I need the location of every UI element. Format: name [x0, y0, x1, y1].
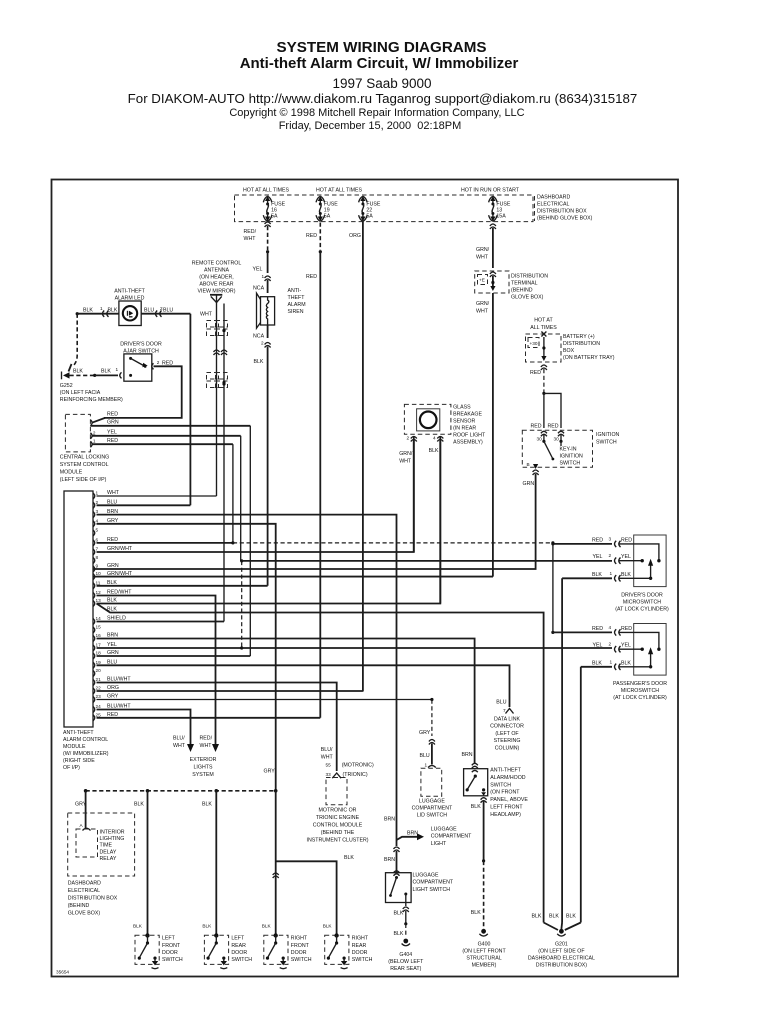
svg-text:BLK: BLK	[202, 802, 212, 808]
svg-text:GRN/: GRN/	[476, 301, 490, 307]
svg-text:(W/ IMMOBILIZER): (W/ IMMOBILIZER)	[63, 751, 109, 757]
svg-text:COMPARTMENT: COMPARTMENT	[431, 834, 472, 840]
svg-text:GLASS: GLASS	[453, 405, 471, 411]
svg-text:LEFT FRONT: LEFT FRONT	[490, 805, 523, 811]
svg-text:35654: 35654	[56, 970, 69, 975]
svg-text:THEFT: THEFT	[288, 295, 306, 301]
svg-text:BLK: BLK	[532, 914, 542, 920]
svg-text:VIEW MIRROR): VIEW MIRROR)	[198, 289, 236, 295]
svg-text:12: 12	[96, 590, 102, 595]
svg-text:RED: RED	[621, 537, 632, 543]
svg-text:1: 1	[93, 439, 96, 444]
svg-text:EXTERIOR: EXTERIOR	[190, 757, 217, 763]
svg-text:YEL: YEL	[593, 554, 603, 560]
svg-text:BLU/: BLU/	[321, 747, 333, 753]
svg-text:(ON HEADER,: (ON HEADER,	[199, 275, 233, 281]
svg-text:(LEFT SIDE OF I/P): (LEFT SIDE OF I/P)	[60, 477, 107, 483]
svg-text:LIGHT: LIGHT	[431, 841, 447, 847]
svg-text:GRN/: GRN/	[399, 451, 413, 457]
svg-text:BLK: BLK	[134, 802, 144, 808]
svg-text:RIGHT: RIGHT	[291, 936, 308, 942]
svg-text:MICROSWITCH: MICROSWITCH	[623, 600, 661, 606]
svg-text:1: 1	[610, 659, 613, 664]
svg-text:MICROSWITCH: MICROSWITCH	[621, 688, 659, 694]
svg-text:4: 4	[96, 518, 99, 523]
svg-text:23: 23	[96, 694, 102, 699]
svg-text:INSTRUMENT CLUSTER): INSTRUMENT CLUSTER)	[306, 838, 368, 844]
svg-text:BLK: BLK	[566, 914, 576, 920]
svg-text:WHT: WHT	[107, 490, 120, 496]
svg-text:COLUMN): COLUMN)	[495, 745, 520, 751]
svg-text:1: 1	[116, 367, 119, 372]
svg-text:22: 22	[96, 686, 102, 691]
svg-text:DISTRIBUTION BOX: DISTRIBUTION BOX	[68, 896, 118, 902]
svg-text:15A: 15A	[496, 214, 506, 220]
svg-text:PANEL, ABOVE: PANEL, ABOVE	[490, 797, 528, 803]
svg-text:BLK: BLK	[101, 369, 111, 375]
svg-text:BREAKAGE: BREAKAGE	[453, 412, 482, 418]
svg-text:ANTENNA: ANTENNA	[204, 268, 230, 274]
svg-text:LUGGAGE: LUGGAGE	[431, 827, 457, 833]
svg-text:BLU/: BLU/	[173, 736, 185, 742]
svg-text:BLK: BLK	[394, 911, 404, 917]
svg-text:15: 15	[96, 625, 102, 630]
svg-text:HOT AT: HOT AT	[534, 318, 553, 324]
svg-text:FRONT: FRONT	[162, 943, 181, 949]
svg-text:GRN: GRN	[107, 420, 119, 426]
svg-text:DRIVER'S DOOR: DRIVER'S DOOR	[120, 342, 162, 348]
svg-text:(ON FRONT: (ON FRONT	[490, 790, 520, 796]
svg-text:8: 8	[96, 555, 99, 560]
svg-text:(IN REAR: (IN REAR	[453, 426, 476, 432]
svg-text:ALARM CONTROL: ALARM CONTROL	[63, 737, 108, 743]
svg-text:RED: RED	[548, 424, 559, 430]
svg-text:LEFT: LEFT	[162, 936, 176, 942]
svg-text:WHT: WHT	[244, 236, 257, 242]
svg-text:BLU: BLU	[163, 308, 173, 314]
svg-text:BLK: BLK	[549, 914, 559, 920]
svg-text:RELAY: RELAY	[100, 856, 117, 862]
svg-text:SWITCH: SWITCH	[490, 782, 511, 788]
svg-text:(BEHIND THE: (BEHIND THE	[321, 830, 355, 836]
svg-text:9: 9	[96, 564, 99, 569]
svg-text:SWITCH: SWITCH	[162, 957, 183, 963]
svg-text:LID SWITCH: LID SWITCH	[417, 813, 448, 819]
svg-text:BRN: BRN	[407, 831, 418, 837]
svg-text:BLK: BLK	[471, 910, 481, 916]
svg-text:COMPARTMENT: COMPARTMENT	[413, 880, 454, 886]
svg-text:BLK: BLK	[621, 572, 631, 578]
svg-text:LEFT: LEFT	[231, 936, 245, 942]
svg-text:(ON LEFT FRONT: (ON LEFT FRONT	[462, 949, 506, 955]
svg-text:14: 14	[96, 616, 102, 621]
svg-text:(AT LOCK CYLINDER): (AT LOCK CYLINDER)	[615, 607, 669, 613]
svg-text:TRIONIC ENGINE: TRIONIC ENGINE	[316, 815, 360, 821]
svg-text:55: 55	[326, 762, 332, 767]
svg-text:24: 24	[96, 704, 102, 709]
svg-text:BLK: BLK	[73, 369, 83, 375]
svg-text:(BEHIND: (BEHIND	[511, 288, 533, 294]
svg-text:2: 2	[157, 360, 160, 365]
svg-text:SWITCH: SWITCH	[560, 461, 581, 467]
svg-text:13: 13	[96, 598, 102, 603]
svg-text:WHT: WHT	[399, 459, 412, 465]
svg-text:RED: RED	[592, 626, 603, 632]
svg-text:BLK: BLK	[254, 359, 264, 365]
svg-text:A: A	[80, 823, 84, 828]
svg-text:(TRIONIC): (TRIONIC)	[343, 772, 368, 778]
svg-text:2: 2	[93, 430, 96, 435]
svg-text:18: 18	[96, 651, 102, 656]
svg-text:WHT: WHT	[476, 255, 489, 261]
svg-text:SIREN: SIREN	[288, 309, 304, 315]
svg-text:(BELOW LEFT: (BELOW LEFT	[388, 959, 424, 965]
svg-text:BLK: BLK	[471, 804, 481, 810]
svg-text:YEL: YEL	[621, 643, 631, 649]
svg-text:HOT AT ALL TIMES: HOT AT ALL TIMES	[243, 188, 290, 194]
svg-text:LIGHTS: LIGHTS	[194, 765, 213, 771]
svg-text:DRIVER'S DOOR: DRIVER'S DOOR	[621, 593, 663, 599]
svg-text:MEMBER): MEMBER)	[472, 963, 497, 969]
svg-text:NCA: NCA	[253, 334, 265, 340]
svg-text:GLOVE BOX): GLOVE BOX)	[511, 295, 544, 301]
svg-text:BLK: BLK	[429, 448, 439, 454]
svg-text:NCA: NCA	[253, 286, 265, 292]
svg-text:MOTRONIC OR: MOTRONIC OR	[319, 808, 357, 814]
svg-text:ASSEMBLY): ASSEMBLY)	[453, 440, 483, 446]
svg-text:DOOR: DOOR	[352, 950, 368, 956]
svg-text:ALARM: ALARM	[288, 302, 306, 308]
svg-text:BLK: BLK	[621, 660, 631, 666]
svg-text:BLK: BLK	[394, 931, 404, 937]
svg-text:YEL: YEL	[621, 554, 631, 560]
svg-text:(LEFT OF: (LEFT OF	[495, 731, 518, 737]
svg-text:INTERIOR: INTERIOR	[100, 830, 125, 836]
svg-text:2: 2	[609, 553, 612, 558]
svg-text:SWITCH: SWITCH	[291, 957, 312, 963]
svg-text:33: 33	[326, 772, 332, 777]
svg-text:2: 2	[609, 642, 612, 647]
svg-text:MODULE: MODULE	[60, 470, 83, 476]
svg-text:ANTI-THEFT: ANTI-THEFT	[63, 730, 94, 736]
svg-text:RED: RED	[107, 438, 118, 444]
svg-text:GRN/: GRN/	[476, 247, 490, 253]
svg-text:ANTI-: ANTI-	[288, 288, 302, 294]
svg-text:DOOR: DOOR	[291, 950, 307, 956]
svg-text:ABOVE REAR: ABOVE REAR	[199, 282, 233, 288]
svg-text:BLK: BLK	[133, 924, 143, 929]
svg-text:IGNITION: IGNITION	[560, 454, 584, 460]
svg-text:2: 2	[407, 436, 410, 441]
svg-text:TERMINAL: TERMINAL	[511, 281, 538, 287]
svg-text:RIGHT: RIGHT	[352, 936, 369, 942]
svg-text:DISTRIBUTION BOX: DISTRIBUTION BOX	[537, 209, 587, 215]
svg-text:(BEHIND GLOVE BOX): (BEHIND GLOVE BOX)	[537, 216, 593, 222]
svg-text:BLK: BLK	[344, 855, 354, 861]
svg-text:10: 10	[96, 571, 102, 576]
svg-text:BRN: BRN	[384, 857, 395, 863]
svg-text:GRY: GRY	[419, 730, 431, 736]
svg-text:1: 1	[425, 763, 428, 768]
svg-text:ROOF LIGHT: ROOF LIGHT	[453, 433, 486, 439]
svg-text:RED/: RED/	[200, 736, 213, 742]
svg-text:SYSTEM: SYSTEM	[192, 772, 214, 778]
svg-text:21: 21	[96, 677, 102, 682]
svg-text:HOT AT ALL TIMES: HOT AT ALL TIMES	[316, 188, 363, 194]
svg-text:WHT: WHT	[321, 755, 334, 761]
svg-text:3: 3	[609, 536, 612, 541]
svg-text:DOOR: DOOR	[231, 950, 247, 956]
svg-text:BLU: BLU	[420, 753, 430, 759]
svg-text:HOT IN RUN OR START: HOT IN RUN OR START	[461, 188, 520, 194]
svg-text:RED: RED	[306, 233, 317, 239]
svg-text:20: 20	[96, 668, 102, 673]
svg-text:(RIGHT SIDE: (RIGHT SIDE	[63, 758, 95, 764]
svg-text:BOX: BOX	[563, 348, 575, 354]
svg-text:HEADLAMP): HEADLAMP)	[490, 812, 521, 818]
svg-text:1: 1	[96, 491, 99, 496]
svg-text:RED: RED	[621, 626, 632, 632]
svg-text:16: 16	[96, 633, 102, 638]
svg-text:RED: RED	[306, 274, 317, 280]
svg-text:DASHBOARD: DASHBOARD	[68, 881, 101, 887]
svg-text:1: 1	[262, 274, 265, 279]
svg-text:4: 4	[433, 436, 436, 441]
svg-text:WHT: WHT	[173, 743, 186, 749]
svg-text:BLK: BLK	[107, 606, 117, 612]
svg-text:BLU: BLU	[496, 700, 506, 706]
svg-text:ALL TIMES: ALL TIMES	[530, 325, 557, 331]
svg-text:SENSOR: SENSOR	[453, 419, 475, 425]
svg-text:TIME: TIME	[100, 843, 113, 849]
svg-text:GLOVE BOX): GLOVE BOX)	[68, 911, 101, 917]
svg-text:SWITCH: SWITCH	[352, 957, 373, 963]
svg-text:YEL: YEL	[107, 430, 117, 436]
svg-text:YEL: YEL	[593, 643, 603, 649]
svg-text:BLU: BLU	[144, 308, 154, 314]
svg-text:BLK: BLK	[262, 924, 272, 929]
svg-text:DISTRIBUTION BOX): DISTRIBUTION BOX)	[536, 963, 588, 969]
svg-text:REAR: REAR	[231, 943, 246, 949]
svg-text:ORG: ORG	[349, 233, 361, 239]
svg-text:LIGHT SWITCH: LIGHT SWITCH	[413, 887, 451, 893]
svg-text:RED: RED	[107, 412, 118, 418]
svg-text:BLK: BLK	[592, 572, 602, 578]
svg-text:6: 6	[96, 537, 99, 542]
svg-text:FRONT: FRONT	[291, 943, 310, 949]
svg-text:ELECTRICAL: ELECTRICAL	[68, 888, 100, 894]
svg-text:STEERING: STEERING	[494, 738, 521, 744]
svg-text:RED: RED	[592, 537, 603, 543]
svg-text:REAR SEAT): REAR SEAT)	[390, 966, 421, 972]
svg-text:DISTRIBUTION: DISTRIBUTION	[563, 341, 600, 347]
svg-text:DELAY: DELAY	[100, 849, 117, 855]
svg-text:BRN: BRN	[462, 752, 473, 758]
svg-text:SWITCH: SWITCH	[596, 440, 617, 446]
svg-text:BLK: BLK	[83, 308, 93, 314]
svg-text:DASHBOARD ELECTRICAL: DASHBOARD ELECTRICAL	[528, 956, 595, 962]
svg-text:+30: +30	[530, 341, 538, 346]
svg-text:ANTI-THEFT: ANTI-THEFT	[114, 289, 145, 295]
svg-text:LIGHTING: LIGHTING	[100, 836, 125, 842]
svg-text:BLK: BLK	[202, 924, 212, 929]
svg-text:YEL: YEL	[253, 267, 263, 273]
svg-text:GRN: GRN	[107, 563, 119, 569]
svg-text:REAR: REAR	[352, 943, 367, 949]
svg-text:GRY: GRY	[264, 769, 276, 775]
svg-text:WHT: WHT	[200, 743, 213, 749]
svg-text:BRN: BRN	[384, 817, 395, 823]
svg-text:1: 1	[100, 306, 103, 311]
svg-text:17: 17	[96, 643, 102, 648]
svg-text:COMPARTMENT: COMPARTMENT	[412, 806, 453, 812]
svg-text:(ON BATTERY TRAY): (ON BATTERY TRAY)	[563, 355, 615, 361]
svg-text:B: B	[527, 462, 530, 467]
svg-text:2: 2	[96, 500, 99, 505]
svg-text:G252: G252	[60, 383, 73, 389]
svg-text:(BEHIND: (BEHIND	[68, 903, 90, 909]
svg-text:SWITCH: SWITCH	[231, 957, 252, 963]
svg-text:IGNITION: IGNITION	[596, 432, 620, 438]
svg-text:CENTRAL LOCKING: CENTRAL LOCKING	[60, 455, 109, 461]
svg-text:BLK: BLK	[592, 660, 602, 666]
svg-text:3: 3	[96, 509, 99, 514]
svg-text:GRY: GRY	[107, 694, 119, 700]
svg-text:RED: RED	[531, 424, 542, 430]
svg-text:MODULE: MODULE	[63, 744, 86, 750]
svg-text:RED/: RED/	[244, 229, 257, 235]
svg-text:(AT LOCK CYLINDER): (AT LOCK CYLINDER)	[613, 695, 667, 701]
svg-text:GRN: GRN	[523, 481, 535, 487]
svg-text:ELECTRICAL: ELECTRICAL	[537, 202, 569, 208]
svg-text:ANTI-THEFT: ANTI-THEFT	[490, 768, 521, 774]
svg-text:BLK: BLK	[323, 924, 333, 929]
svg-text:LUGGAGE: LUGGAGE	[413, 873, 439, 879]
svg-text:(ON LEFT SIDE OF: (ON LEFT SIDE OF	[538, 949, 584, 955]
svg-text:5: 5	[96, 528, 99, 533]
svg-text:SYSTEM CONTROL: SYSTEM CONTROL	[60, 462, 109, 468]
svg-text:REINFORCING MEMBER): REINFORCING MEMBER)	[60, 397, 123, 403]
svg-text:7: 7	[96, 547, 99, 552]
svg-text:STRUCTURAL: STRUCTURAL	[466, 956, 501, 962]
svg-text:1: 1	[610, 571, 613, 576]
svg-text:30: 30	[537, 437, 543, 442]
svg-text:DOOR: DOOR	[162, 950, 178, 956]
svg-text:4: 4	[609, 625, 612, 630]
svg-text:+E: +E	[479, 278, 485, 283]
svg-text:ALARM/HOOD: ALARM/HOOD	[490, 775, 526, 781]
svg-text:KEY-IN: KEY-IN	[560, 447, 577, 453]
svg-text:7: 7	[503, 708, 506, 713]
svg-text:19: 19	[96, 660, 102, 665]
svg-text:11: 11	[96, 580, 101, 585]
svg-text:25: 25	[96, 712, 102, 717]
svg-text:5A: 5A	[271, 214, 278, 220]
svg-text:G400: G400	[478, 942, 491, 948]
svg-text:DASHBOARD: DASHBOARD	[537, 195, 570, 201]
svg-text:5A: 5A	[324, 214, 331, 220]
svg-text:DATA LINK: DATA LINK	[494, 717, 521, 723]
svg-text:(ON LEFT FACIA: (ON LEFT FACIA	[60, 390, 101, 396]
svg-text:2: 2	[261, 341, 264, 346]
svg-text:G201: G201	[555, 942, 568, 948]
svg-text:OF I/P): OF I/P)	[63, 765, 80, 771]
svg-text:LUGGAGE: LUGGAGE	[419, 799, 445, 805]
svg-text:BLK: BLK	[108, 308, 118, 314]
svg-text:CONTROL MODULE: CONTROL MODULE	[313, 823, 363, 829]
svg-text:G404: G404	[399, 952, 412, 958]
svg-text:30: 30	[554, 437, 560, 442]
svg-text:BATTERY (+): BATTERY (+)	[563, 334, 595, 340]
svg-text:CONNECTOR: CONNECTOR	[490, 724, 524, 730]
svg-text:(MOTRONIC): (MOTRONIC)	[342, 762, 374, 768]
svg-text:5A: 5A	[366, 214, 373, 220]
svg-text:WHT: WHT	[476, 309, 489, 315]
svg-text:REMOTE CONTROL: REMOTE CONTROL	[192, 261, 242, 267]
svg-text:RED: RED	[530, 370, 541, 376]
svg-text:DISTRIBUTION: DISTRIBUTION	[511, 274, 548, 280]
svg-text:PASSENGER'S DOOR: PASSENGER'S DOOR	[613, 681, 667, 687]
svg-text:WHT: WHT	[200, 312, 213, 318]
